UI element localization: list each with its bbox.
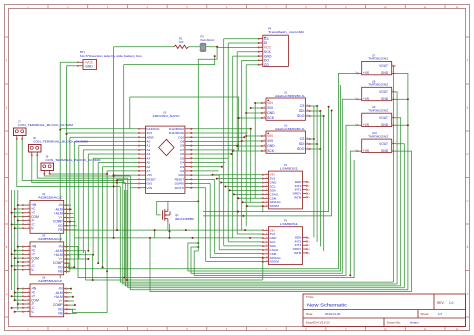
svg-text:SCK: SCK [267,116,275,120]
svg-text:1.0: 1.0 [449,301,454,305]
svg-text:D: D [6,153,8,156]
svg-text:TMP36GZ/NZ: TMP36GZ/NZ [368,108,389,112]
svg-text:U2: U2 [284,123,288,127]
svg-text:P1: P1 [284,163,288,167]
svg-text:SCK: SCK [267,149,275,153]
svg-text:TMP36GZ/NZ: TMP36GZ/NZ [368,83,389,87]
svg-text:LSM9DS1: LSM9DS1 [280,166,299,170]
svg-text:-GND: -GND [85,65,94,69]
svg-text:+VS: +VS [363,71,369,75]
svg-text:TMP36GZ/NZ: TMP36GZ/NZ [368,134,389,138]
svg-text:Transflash_microSD: Transflash_microSD [268,30,304,34]
svg-text:SDOM: SDOM [270,260,280,264]
svg-text:C: C [467,200,469,203]
svg-text:BT1: BT1 [80,50,85,54]
svg-text:P3: P3 [201,34,205,38]
svg-text:New Schematic: New Schematic [307,302,348,307]
svg-text:R1: R1 [179,37,183,41]
svg-text:Drawn By:: Drawn By: [387,321,401,325]
svg-text:CON_TERMINAL_BLOCK_02.5MM: CON_TERMINAL_BLOCK_02.5MM [33,139,88,143]
svg-text:CS: CS [300,137,305,141]
svg-text:GND: GND [267,111,275,115]
svg-text:GND: GND [381,97,389,101]
svg-text:U1: U1 [284,90,288,94]
svg-text:P4: P4 [268,26,272,30]
svg-text:No.5*2section side by side bat: No.5*2section side by side battery box [80,54,143,58]
svg-text:SCK: SCK [264,50,272,54]
svg-text:D1/TX: D1/TX [175,186,185,190]
svg-text:VOUT: VOUT [379,142,388,146]
svg-text:CD: CD [264,63,269,67]
svg-text:SDO: SDO [297,114,305,118]
svg-text:3V0: 3V0 [267,106,273,110]
svg-text:VIN: VIN [267,101,273,105]
svg-text:2019-01-30: 2019-01-30 [325,312,341,316]
svg-text:SDOM: SDOM [270,204,280,208]
svg-text:+VS: +VS [363,123,369,127]
svg-text:1/1: 1/1 [438,312,443,316]
svg-text:CS: CS [300,104,305,108]
svg-text:TMP36GZ/NZ: TMP36GZ/NZ [368,57,389,61]
svg-text:SDI: SDI [299,109,305,113]
svg-text:CON_TERMINAL_BLOCK_02.5MM: CON_TERMINAL_BLOCK_02.5MM [46,158,101,162]
svg-text:Adafruit BMP280 JL: Adafruit BMP280 JL [275,127,306,131]
svg-text:Q1: Q1 [175,213,179,217]
svg-text:P2: P2 [284,219,288,223]
svg-text:REV:: REV: [437,301,444,305]
svg-text:GND: GND [381,71,389,75]
svg-text:DO: DO [264,59,269,63]
svg-text:TITLE:: TITLE: [306,295,314,299]
svg-text:VIN: VIN [146,186,152,190]
svg-text:Adafruit BMP280 JL: Adafruit BMP280 JL [275,94,306,98]
svg-text:U4: U4 [42,192,46,196]
svg-text:+VS: +VS [363,97,369,101]
svg-text:AD8556ACZ: AD8556ACZ [38,279,63,283]
svg-text:CON_TERMINAL_BLOCK_02.5MM: CON_TERMINAL_BLOCK_02.5MM [18,123,73,127]
svg-text:Sheet:: Sheet: [421,312,430,316]
svg-text:EasyEDA V5.8.22: EasyEDA V5.8.22 [306,321,330,325]
svg-text:IRF2448PBF: IRF2448PBF [175,217,195,221]
svg-text:U3: U3 [163,111,167,115]
svg-text:GND: GND [267,144,275,148]
svg-text:D: D [467,153,469,156]
svg-text:V-: V- [31,310,34,314]
svg-text:LSM9DS1: LSM9DS1 [280,222,299,226]
svg-text:+VS: +VS [363,149,369,153]
svg-text:C: C [6,200,8,203]
svg-text:levans: levans [410,321,419,325]
svg-text:DI: DI [264,41,267,45]
svg-text:VIN: VIN [267,134,273,138]
svg-text:AD8556ACZ: AD8556ACZ [38,195,63,199]
svg-text:3V0: 3V0 [267,139,273,143]
svg-text:Date:: Date: [306,312,313,316]
svg-text:VOUT: VOUT [379,90,388,94]
svg-text:SDI: SDI [299,142,305,146]
svg-text:Piezo Buzzer: Piezo Buzzer [201,38,215,42]
svg-text:GND: GND [381,149,389,153]
svg-text:U5: U5 [42,234,46,238]
svg-text:U6: U6 [42,276,46,280]
svg-text:V-: V- [31,226,34,230]
svg-text:100: 100 [179,40,184,44]
svg-text:VOUT: VOUT [379,116,388,120]
svg-text:V-: V- [31,268,34,272]
svg-text:AD8556ACZ: AD8556ACZ [38,237,63,241]
svg-text:ARDUINO_NANO: ARDUINO_NANO [153,114,180,118]
svg-text:SDO: SDO [297,147,305,151]
svg-text:GND: GND [381,123,389,127]
svg-text:INTM: INTM [294,251,302,255]
svg-text:INTM: INTM [294,195,302,199]
svg-text:VOUT: VOUT [379,64,388,68]
